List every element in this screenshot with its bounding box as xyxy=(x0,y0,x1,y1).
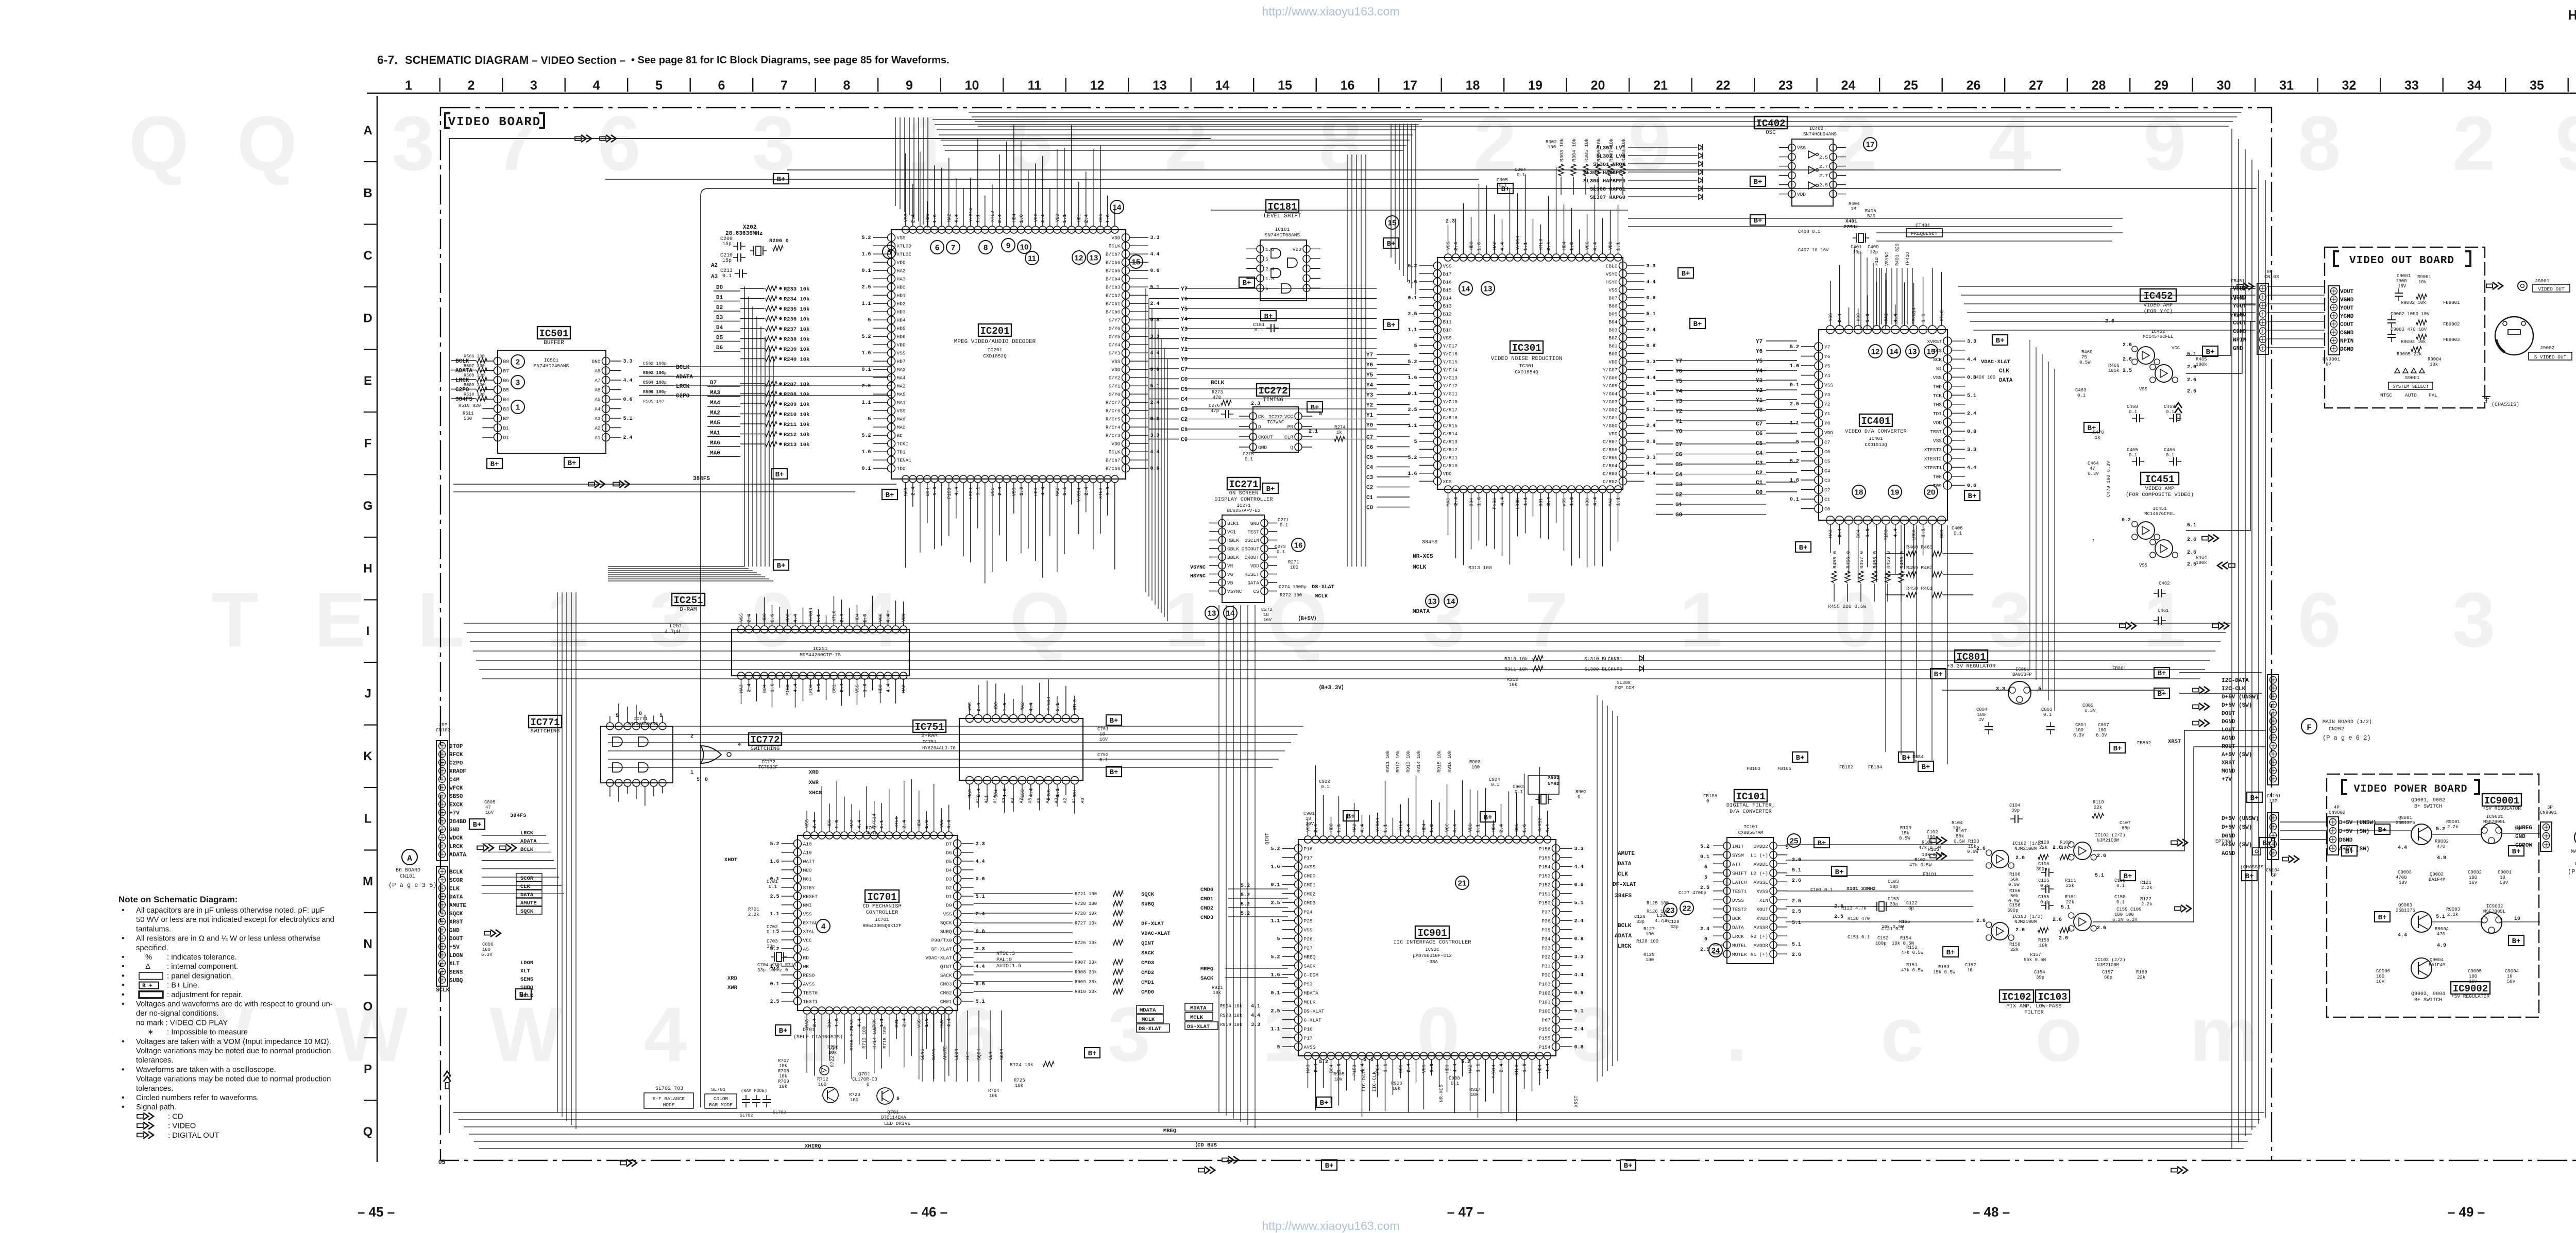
svg-text:C6: C6 xyxy=(1756,431,1762,437)
svg-text:R725: R725 xyxy=(1014,1078,1025,1083)
svg-text:IC101: IC101 xyxy=(1743,825,1757,830)
svg-text:P153: P153 xyxy=(1884,529,1889,541)
svg-text:CT401: CT401 xyxy=(1916,222,1930,228)
svg-text:C0: C0 xyxy=(1675,512,1682,519)
svg-text:R405: R405 xyxy=(1865,209,1876,214)
svg-text:C466: C466 xyxy=(2164,448,2175,453)
svg-text:2.1: 2.1 xyxy=(1309,429,1318,435)
svg-text:C805: C805 xyxy=(484,800,496,805)
svg-text:1: 1 xyxy=(907,100,950,186)
svg-text:C908: C908 xyxy=(1449,1076,1460,1081)
svg-text:0.1: 0.1 xyxy=(2040,900,2048,905)
svg-text:100p: 100p xyxy=(1927,835,1938,840)
svg-text:MA3: MA3 xyxy=(904,488,909,496)
svg-text:Y5: Y5 xyxy=(1181,306,1188,313)
svg-text:2: 2 xyxy=(1164,100,1207,186)
svg-text:MDATA: MDATA xyxy=(1140,1007,1156,1014)
svg-text:YOUT: YOUT xyxy=(2340,305,2354,312)
svg-text:R920 10k: R920 10k xyxy=(1220,1013,1242,1018)
svg-text:C806: C806 xyxy=(482,942,494,947)
svg-text:CLK: CLK xyxy=(1999,368,2009,374)
svg-text:100k: 100k xyxy=(2196,560,2207,566)
svg-text:HCD-V707: HCD-V707 xyxy=(2568,7,2576,23)
svg-text:C801: C801 xyxy=(2075,723,2087,728)
svg-text:TEST2: TEST2 xyxy=(1732,906,1747,912)
svg-text:R464: R464 xyxy=(2196,555,2207,560)
svg-text:6: 6 xyxy=(2298,576,2341,663)
svg-text:R724 10k: R724 10k xyxy=(1010,1062,1033,1068)
svg-text:C463: C463 xyxy=(2075,388,2087,393)
svg-text:2.6: 2.6 xyxy=(1792,878,1801,884)
svg-text:VIDEO OUT: VIDEO OUT xyxy=(2538,286,2565,292)
svg-text:MA0: MA0 xyxy=(897,425,906,431)
svg-text:R208 10k: R208 10k xyxy=(784,392,809,398)
svg-text:CGND: CGND xyxy=(2340,330,2354,336)
svg-text:5.2: 5.2 xyxy=(1241,902,1250,907)
svg-text:CGND: CGND xyxy=(2233,329,2247,335)
svg-text:Voltage variations may be note: Voltage variations may be noted due to n… xyxy=(136,1047,331,1055)
svg-text:4.4: 4.4 xyxy=(1150,252,1160,258)
svg-text:2.4: 2.4 xyxy=(1700,927,1709,932)
svg-text:VDD: VDD xyxy=(1111,441,1120,447)
svg-text:0.1: 0.1 xyxy=(770,982,779,987)
svg-text:Q9001: Q9001 xyxy=(2398,815,2412,820)
svg-text:4V: 4V xyxy=(1978,717,1984,723)
svg-text:0.1: 0.1 xyxy=(1790,497,1799,503)
svg-text:Y/G04: Y/G04 xyxy=(1603,391,1618,397)
svg-text:R727 10k: R727 10k xyxy=(1075,921,1097,926)
svg-text:B+: B+ xyxy=(1110,717,1118,725)
svg-text:SL701: SL701 xyxy=(711,1087,726,1092)
svg-text:R909 33k: R909 33k xyxy=(1075,980,1097,985)
svg-text:R151: R151 xyxy=(1906,963,1918,968)
svg-text:R212 10k: R212 10k xyxy=(784,432,809,438)
svg-text:C122: C122 xyxy=(1906,901,1918,906)
svg-text:FB9001: FB9001 xyxy=(2443,300,2460,305)
svg-text:R121: R121 xyxy=(2140,880,2151,885)
svg-text:VSS: VSS xyxy=(1562,498,1567,506)
svg-text:100p: 100p xyxy=(1875,941,1887,946)
svg-text:HD0: HD0 xyxy=(897,285,906,290)
svg-text:NPIN: NPIN xyxy=(2340,338,2353,345)
svg-text:C401: C401 xyxy=(1851,245,1862,250)
svg-text:P27: P27 xyxy=(1304,945,1313,951)
svg-text:VGND: VGND xyxy=(2340,297,2354,303)
svg-text:TRST: TRST xyxy=(1930,429,1942,435)
svg-text:P32: P32 xyxy=(1541,954,1550,960)
svg-text:XTL0: XTL0 xyxy=(1940,310,1945,321)
svg-text:2.5: 2.5 xyxy=(861,384,871,389)
svg-text:0.1: 0.1 xyxy=(1700,854,1709,860)
svg-text:Y1: Y1 xyxy=(1181,347,1188,353)
svg-text:VR: VR xyxy=(1227,563,1233,569)
svg-text:MREQ: MREQ xyxy=(1304,954,1316,960)
svg-text:B+: B+ xyxy=(1946,949,1955,957)
svg-text:: adjustment for repair.: : adjustment for repair. xyxy=(167,991,243,999)
svg-text:C/R15: C/R15 xyxy=(1443,423,1458,429)
svg-text:C305: C305 xyxy=(1497,178,1508,183)
svg-text:2.4: 2.4 xyxy=(1647,328,1656,333)
svg-text:XTL0: XTL0 xyxy=(1539,238,1544,250)
svg-text:384BD: 384BD xyxy=(449,819,466,825)
svg-text:P153: P153 xyxy=(947,488,952,499)
svg-text:IC201: IC201 xyxy=(988,347,1003,353)
svg-text:X401: X401 xyxy=(1845,218,1857,224)
svg-text:SCOR: SCOR xyxy=(449,878,463,884)
svg-text:4.7k: 4.7k xyxy=(867,831,878,836)
svg-text:P155: P155 xyxy=(1539,855,1551,861)
svg-text:N: N xyxy=(363,937,372,951)
svg-text:MA6: MA6 xyxy=(897,417,906,422)
svg-text:A4: A4 xyxy=(1045,798,1050,803)
svg-text:0: 0 xyxy=(1914,760,1917,765)
svg-text:MAIN BOARD: MAIN BOARD xyxy=(2571,849,2576,855)
svg-text:CMD2: CMD2 xyxy=(1200,905,1213,912)
svg-text:⟨CD BUS: ⟨CD BUS xyxy=(1195,1142,1217,1149)
svg-text:FB452: FB452 xyxy=(2231,296,2245,301)
svg-text:VSS: VSS xyxy=(855,684,860,693)
svg-text:P154: P154 xyxy=(1539,864,1551,870)
svg-text:R907 33k: R907 33k xyxy=(1075,960,1097,965)
svg-text:TMS: TMS xyxy=(1933,402,1942,407)
svg-text:10p: 10p xyxy=(1853,250,1861,255)
svg-text:VCC: VCC xyxy=(939,819,944,828)
svg-text:SL702 703: SL702 703 xyxy=(655,1086,683,1092)
svg-text:0: 0 xyxy=(705,777,708,783)
svg-text:B+: B+ xyxy=(2245,872,2254,881)
svg-text:Y6: Y6 xyxy=(1675,369,1682,375)
svg-text:D5: D5 xyxy=(716,335,723,341)
svg-text:VDD: VDD xyxy=(1797,192,1806,197)
svg-text:: panel designation.: : panel designation. xyxy=(167,972,233,980)
svg-text:F: F xyxy=(364,437,372,451)
svg-text:1.6: 1.6 xyxy=(1265,247,1274,252)
svg-text:0.1: 0.1 xyxy=(769,884,777,889)
svg-text:VCC: VCC xyxy=(803,937,812,943)
svg-text:7: 7 xyxy=(495,100,537,186)
svg-text:100: 100 xyxy=(1977,712,1986,717)
svg-text:R508 330: R508 330 xyxy=(464,373,485,378)
svg-text:4.4: 4.4 xyxy=(976,859,985,865)
svg-text:C9002 1000 10V: C9002 1000 10V xyxy=(2391,312,2430,317)
svg-text:G/Y1: G/Y1 xyxy=(1109,384,1121,389)
svg-text:XRST: XRST xyxy=(1573,1095,1579,1107)
svg-text:B/Cb6: B/Cb6 xyxy=(1106,260,1121,266)
svg-text:C9004: C9004 xyxy=(2505,969,2519,974)
svg-text:L1 (+): L1 (+) xyxy=(1751,852,1768,858)
svg-text:(CHASSIS): (CHASSIS) xyxy=(2492,402,2519,408)
svg-text:SL305 HAPBPF0: SL305 HAPBPF0 xyxy=(1583,178,1625,184)
svg-text:R723: R723 xyxy=(849,1092,860,1098)
svg-text:0: 0 xyxy=(639,711,642,717)
svg-text:0.1: 0.1 xyxy=(2129,453,2137,458)
svg-text:100: 100 xyxy=(1646,932,1654,937)
svg-text:IC751: IC751 xyxy=(922,740,936,745)
svg-text:100: 100 xyxy=(2098,728,2106,733)
svg-text:AMUTE: AMUTE xyxy=(449,903,466,909)
svg-text:10V: 10V xyxy=(2399,880,2408,885)
svg-text:CD MECHANISM: CD MECHANISM xyxy=(862,903,902,910)
svg-text:12: 12 xyxy=(1075,254,1083,263)
svg-text:5.2: 5.2 xyxy=(1241,883,1250,889)
svg-text:P154: P154 xyxy=(1539,1044,1551,1050)
svg-text:IC772: IC772 xyxy=(761,760,775,765)
svg-text:0.1: 0.1 xyxy=(1270,990,1280,996)
svg-text:LDON: LDON xyxy=(449,953,463,959)
svg-text:BA033FP: BA033FP xyxy=(2012,672,2032,677)
svg-text:R303 10k: R303 10k xyxy=(1559,138,1565,162)
svg-text:SUBQ: SUBQ xyxy=(940,929,952,934)
svg-text:MCLK: MCLK xyxy=(1142,1017,1155,1023)
svg-text:CMD0: CMD0 xyxy=(1304,873,1316,879)
svg-text:C9002: C9002 xyxy=(2468,870,2482,875)
svg-text:BCLK: BCLK xyxy=(1211,380,1225,386)
svg-text:C159 C109: C159 C109 xyxy=(2116,907,2142,912)
svg-text:FILTER: FILTER xyxy=(2024,1009,2044,1016)
svg-text:2: 2 xyxy=(468,78,475,93)
svg-text:Circled numbers refer to wavef: Circled numbers refer to waveforms. xyxy=(136,1094,259,1102)
svg-text:SCLK: SCLK xyxy=(436,987,450,994)
svg-text:100: 100 xyxy=(1548,145,1556,150)
svg-text:6.3V: 6.3V xyxy=(481,952,493,957)
svg-text:XHDT: XHDT xyxy=(724,857,737,863)
svg-text:4: 4 xyxy=(1989,100,2031,186)
svg-text:COUT: COUT xyxy=(2340,322,2354,328)
svg-text:VDD: VDD xyxy=(902,613,907,622)
svg-text:B01: B01 xyxy=(1539,498,1544,506)
svg-text:CN104: CN104 xyxy=(2266,868,2280,873)
svg-text:11: 11 xyxy=(1028,254,1036,263)
svg-text:C156: C156 xyxy=(2009,903,2021,908)
svg-text:2.4: 2.4 xyxy=(1265,266,1274,272)
svg-text:X101 33MHz: X101 33MHz xyxy=(1846,886,1876,892)
svg-text:C6: C6 xyxy=(1824,449,1831,455)
svg-text:0.1: 0.1 xyxy=(1321,784,1329,790)
svg-text:CX0B567AM: CX0B567AM xyxy=(1738,830,1764,835)
svg-text:2.4: 2.4 xyxy=(1574,918,1584,924)
svg-text:4.4: 4.4 xyxy=(976,964,985,970)
svg-text:CN101: CN101 xyxy=(2267,794,2281,799)
svg-text:B6 BOARD: B6 BOARD xyxy=(396,868,420,874)
svg-text:HD1: HD1 xyxy=(1492,824,1497,832)
svg-text:11: 11 xyxy=(1028,78,1042,93)
svg-text:Y4: Y4 xyxy=(1181,317,1188,323)
svg-text:C106: C106 xyxy=(2038,862,2049,867)
svg-text:D3: D3 xyxy=(716,315,723,321)
svg-text:B4: B4 xyxy=(503,397,510,402)
svg-text:Waveforms are taken with a osc: Waveforms are taken with a oscilloscope. xyxy=(136,1066,276,1074)
svg-text:AMUTE: AMUTE xyxy=(520,900,537,906)
svg-text:SXP COM: SXP COM xyxy=(1615,686,1634,691)
svg-text:IC9001: IC9001 xyxy=(2486,814,2503,819)
svg-text:50V: 50V xyxy=(2500,880,2509,885)
svg-text:SQCK: SQCK xyxy=(449,911,463,917)
svg-text:B+: B+ xyxy=(1934,671,1943,679)
svg-text:R455 220 0.5W: R455 220 0.5W xyxy=(1828,604,1866,609)
svg-text:C274 1000p: C274 1000p xyxy=(1279,585,1307,590)
svg-text:100: 100 xyxy=(1290,565,1298,570)
svg-text:P153: P153 xyxy=(786,684,791,696)
svg-text:1.6: 1.6 xyxy=(1408,375,1417,381)
svg-text:AVSS: AVSS xyxy=(1304,864,1316,870)
svg-text:Y7: Y7 xyxy=(1675,358,1682,365)
svg-text:R108: R108 xyxy=(2038,840,2049,845)
svg-text:m: m xyxy=(2190,991,2258,1077)
svg-text:100k: 100k xyxy=(2196,362,2207,367)
svg-text:P151: P151 xyxy=(1539,891,1551,897)
svg-text:R9002: R9002 xyxy=(2435,839,2449,844)
svg-text:: DIGITAL OUT: : DIGITAL OUT xyxy=(168,1132,219,1140)
svg-text:A9: A9 xyxy=(1002,798,1007,803)
svg-text:SL304 HAPBPF1: SL304 HAPBPF1 xyxy=(1583,170,1625,176)
svg-text:EXCK: EXCK xyxy=(449,802,463,808)
svg-text:1: 1 xyxy=(546,576,589,663)
svg-text:B+: B+ xyxy=(1311,404,1319,412)
svg-text:CM03: CM03 xyxy=(940,981,952,987)
svg-text:HD4: HD4 xyxy=(1538,1065,1543,1073)
svg-text:5.1: 5.1 xyxy=(1792,942,1801,948)
svg-text:IC301: IC301 xyxy=(1512,342,1541,354)
svg-text:5.1: 5.1 xyxy=(1647,312,1656,317)
svg-text:Y0: Y0 xyxy=(1181,357,1188,363)
svg-text:B+: B+ xyxy=(2512,848,2521,856)
svg-text:B04: B04 xyxy=(762,684,768,693)
svg-text:BA1F4M: BA1F4M xyxy=(2429,877,2445,882)
svg-text:C1: C1 xyxy=(1675,502,1683,508)
svg-text:QINT: QINT xyxy=(1264,833,1270,845)
svg-text:•: • xyxy=(122,1037,125,1046)
svg-text:2.5: 2.5 xyxy=(1792,909,1801,915)
svg-text:MA3: MA3 xyxy=(739,684,744,693)
svg-text:100: 100 xyxy=(2376,974,2384,979)
svg-text:R701: R701 xyxy=(748,907,759,912)
svg-text:AVDDL: AVDDL xyxy=(1753,862,1768,867)
svg-text:IC402: IC402 xyxy=(1809,126,1823,131)
svg-text:A12: A12 xyxy=(975,795,980,803)
svg-text:B+ SWITCH: B+ SWITCH xyxy=(2414,998,2442,1003)
svg-text:32: 32 xyxy=(2342,78,2357,93)
svg-text:P156: P156 xyxy=(1539,1026,1551,1032)
svg-text:B+: B+ xyxy=(1818,840,1826,848)
svg-text:G-XLAT: G-XLAT xyxy=(1304,1017,1322,1023)
svg-text:UNREG: UNREG xyxy=(2515,825,2532,831)
svg-text:IC401: IC401 xyxy=(1869,436,1883,441)
svg-text:MREQ: MREQ xyxy=(1200,966,1213,972)
svg-text:+3.3V REGULATOR: +3.3V REGULATOR xyxy=(1947,663,1996,670)
svg-text:10: 10 xyxy=(965,78,979,93)
svg-text:P150: P150 xyxy=(1539,900,1551,906)
svg-text:R273: R273 xyxy=(1212,390,1223,395)
svg-text:Y7: Y7 xyxy=(1181,286,1188,293)
svg-text:X202: X202 xyxy=(743,225,756,231)
svg-text:10k: 10k xyxy=(1392,1086,1400,1091)
svg-text:DATA: DATA xyxy=(1732,924,1744,930)
svg-text:•: • xyxy=(122,906,125,915)
svg-text:MA0: MA0 xyxy=(710,451,720,457)
svg-text:P26: P26 xyxy=(1304,936,1313,942)
svg-text:B+: B+ xyxy=(2378,914,2387,922)
svg-text:XRD: XRD xyxy=(809,769,819,776)
svg-text:DVSS: DVSS xyxy=(1732,898,1744,903)
svg-text:CLK: CLK xyxy=(988,1051,993,1060)
svg-text:R919 10k: R919 10k xyxy=(1220,1022,1242,1027)
svg-text:IC402: IC402 xyxy=(1756,118,1785,129)
svg-text:ATT: ATT xyxy=(1732,862,1741,867)
svg-text:C0: C0 xyxy=(1756,490,1762,496)
svg-text:FB451: FB451 xyxy=(2231,279,2245,284)
svg-text:0.1: 0.1 xyxy=(2116,883,2125,888)
svg-text:Y/G14: Y/G14 xyxy=(1077,488,1082,502)
svg-text:C/R10: C/R10 xyxy=(1443,463,1458,469)
svg-text:100 100: 100 100 xyxy=(2114,912,2134,917)
svg-text:R906: R906 xyxy=(1391,1081,1402,1086)
svg-text:10k 0.5N: 10k 0.5N xyxy=(1892,941,1914,946)
svg-text:IC9001: IC9001 xyxy=(2484,795,2519,807)
svg-text:MIX AMP, LOW-PASS: MIX AMP, LOW-PASS xyxy=(2006,1003,2061,1009)
svg-text:5.2: 5.2 xyxy=(1319,1059,1328,1065)
svg-text:0.8: 0.8 xyxy=(1647,344,1656,349)
svg-text:R161: R161 xyxy=(2065,895,2076,900)
svg-text:16V: 16V xyxy=(485,810,494,815)
svg-text:8P: 8P xyxy=(2267,269,2273,275)
svg-text:R406 100: R406 100 xyxy=(1973,375,1995,380)
svg-text:R/Cr4: R/Cr4 xyxy=(1106,425,1121,431)
svg-text:Y3: Y3 xyxy=(1366,392,1374,399)
svg-text:16V: 16V xyxy=(2469,880,2478,885)
svg-text:2.5: 2.5 xyxy=(770,894,779,900)
svg-text:Y1: Y1 xyxy=(1675,419,1683,425)
svg-text:GND: GND xyxy=(2233,346,2243,352)
svg-text:specified.: specified. xyxy=(136,944,168,952)
svg-text:BCLK: BCLK xyxy=(449,869,463,876)
svg-text:Y2: Y2 xyxy=(1824,401,1831,407)
svg-text:CDPOW: CDPOW xyxy=(2515,843,2532,849)
svg-text:VSS: VSS xyxy=(1933,438,1942,443)
svg-text:TCK: TCK xyxy=(1933,393,1942,399)
svg-text:SUBQ: SUBQ xyxy=(449,978,463,984)
svg-text:C902: C902 xyxy=(1319,779,1330,784)
svg-text:MAIN BOARD (1/2): MAIN BOARD (1/2) xyxy=(2323,719,2372,725)
svg-text:LEVEL SHIFT: LEVEL SHIFT xyxy=(1264,213,1301,219)
svg-text:P100: P100 xyxy=(1539,1008,1551,1014)
svg-text:+5V REGULATOR: +5V REGULATOR xyxy=(2451,994,2489,999)
svg-text:SCHEMATIC DIAGRAM: SCHEMATIC DIAGRAM xyxy=(405,54,529,66)
svg-text:1.6: 1.6 xyxy=(861,351,871,356)
svg-text:0: 0 xyxy=(1578,795,1580,800)
svg-text:100: 100 xyxy=(482,947,490,952)
svg-text:2.4: 2.4 xyxy=(1967,411,1976,417)
svg-text:3P: 3P xyxy=(2547,805,2553,810)
svg-text:5.2: 5.2 xyxy=(1700,844,1709,850)
svg-text:1: 1 xyxy=(1680,576,1722,663)
svg-text:P90/TX0: P90/TX0 xyxy=(931,937,952,943)
svg-text:2.3: 2.3 xyxy=(1446,219,1455,225)
svg-text:B05: B05 xyxy=(1608,311,1617,317)
svg-text:5.2: 5.2 xyxy=(861,235,871,241)
svg-text:Y/G07: Y/G07 xyxy=(1603,367,1618,373)
svg-text:TEST: TEST xyxy=(1247,529,1259,535)
svg-text:B+: B+ xyxy=(1264,313,1273,321)
svg-text:Y/G01: Y/G01 xyxy=(1603,415,1618,421)
svg-text:VSY0: VSY0 xyxy=(1606,271,1618,277)
svg-text:VSS: VSS xyxy=(1933,375,1942,381)
svg-text:CLK: CLK xyxy=(449,886,460,892)
svg-text:5.2: 5.2 xyxy=(1461,1059,1470,1065)
svg-text:VSS: VSS xyxy=(1443,263,1452,269)
svg-text:B+: B+ xyxy=(1347,813,1355,821)
svg-text:Q9003, 9004: Q9003, 9004 xyxy=(2411,991,2445,997)
svg-text:13: 13 xyxy=(1428,597,1437,606)
